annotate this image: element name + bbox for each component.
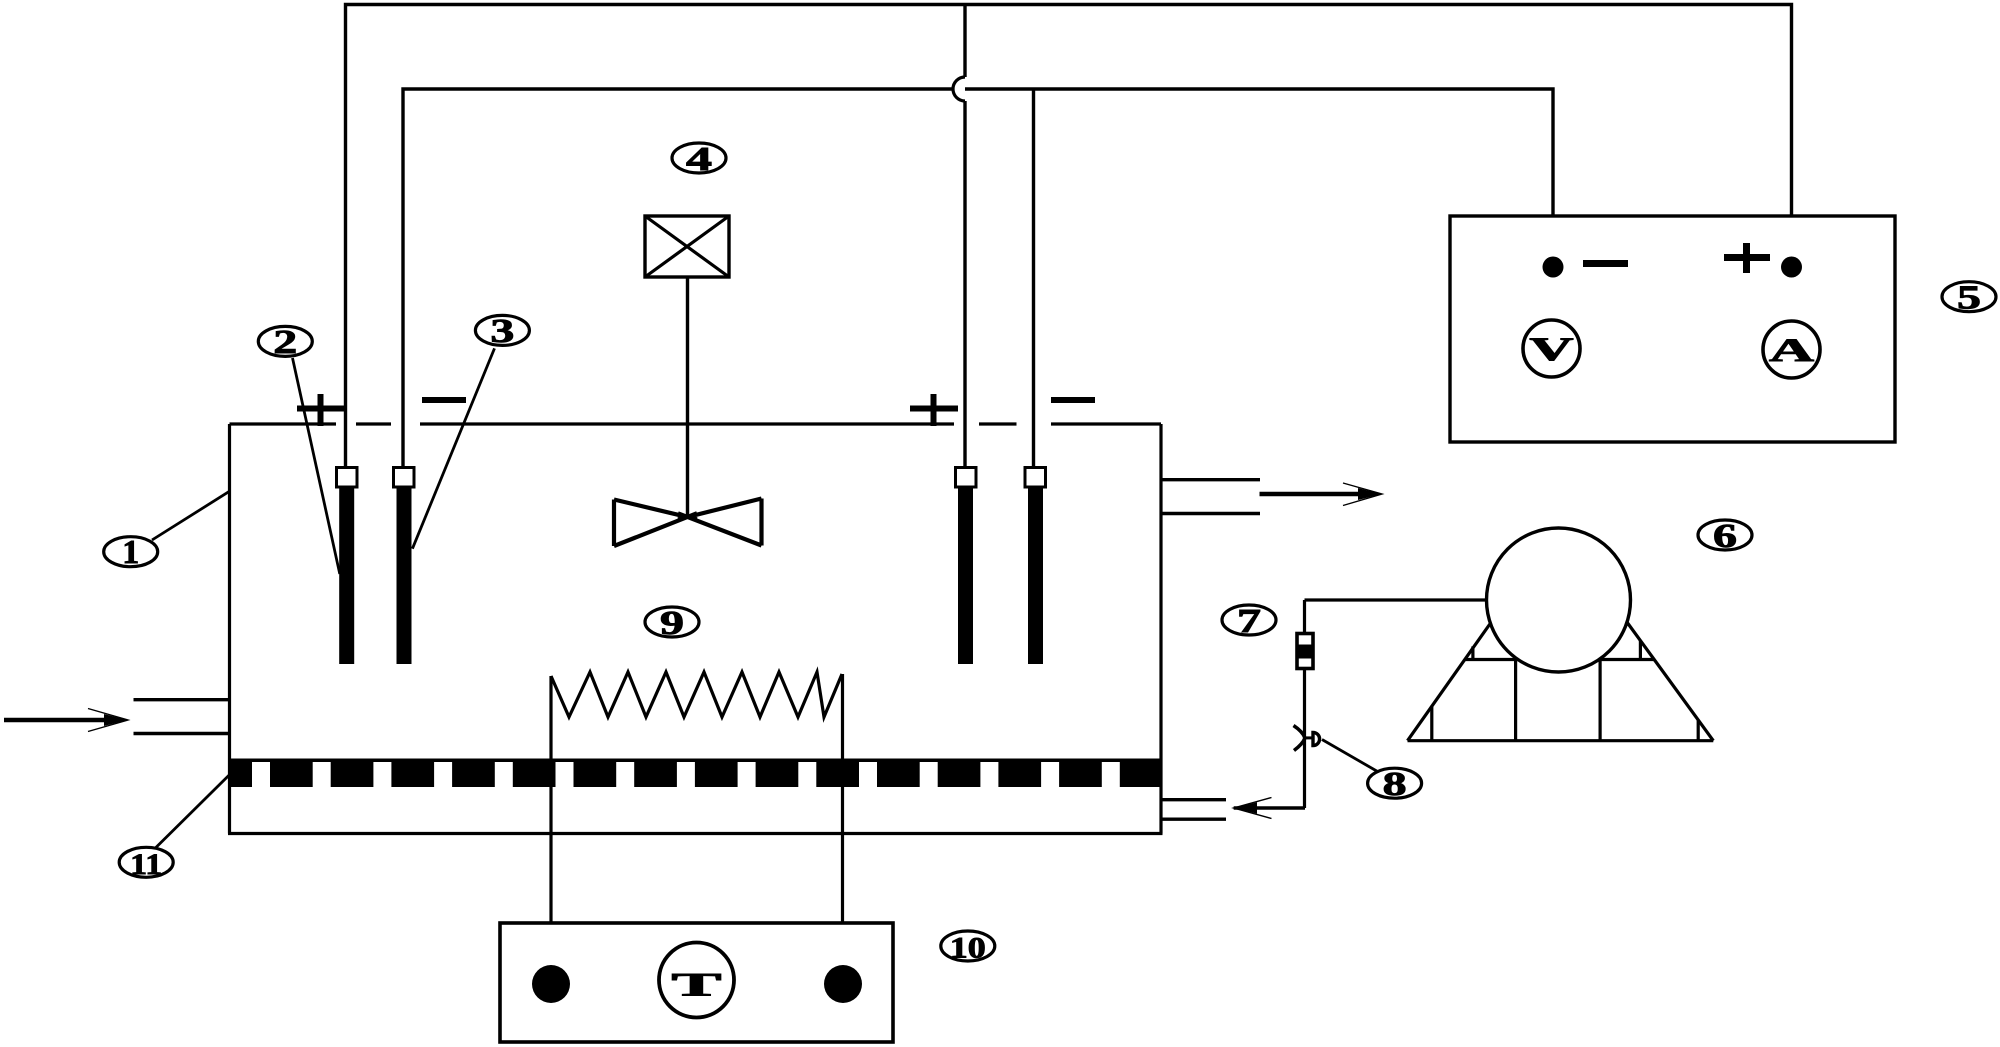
label 8	[1368, 768, 1422, 798]
flow restrictor 7	[1297, 634, 1313, 669]
wire hop crossing at cathode bus	[953, 77, 965, 101]
electrode right anode connector box	[956, 468, 977, 488]
electrode right cathode connector box	[1025, 468, 1046, 488]
valve 8	[1294, 726, 1305, 751]
pump 6 base left slant	[1408, 621, 1493, 741]
label 6	[1698, 520, 1752, 550]
outlet pipe lower right	[1161, 800, 1226, 820]
svg-text:11: 11	[130, 848, 162, 881]
electrode 3 connector box	[394, 468, 415, 488]
svg-text:1: 1	[122, 534, 139, 571]
svg-text:6: 6	[1713, 518, 1737, 555]
heater right lead	[841, 674, 844, 966]
svg-text:T: T	[672, 968, 722, 1004]
svg-text:A: A	[1769, 333, 1814, 369]
outlet pipe upper right	[1161, 480, 1260, 514]
stirrer impeller	[614, 499, 762, 547]
voltmeter V	[1523, 320, 1580, 377]
svg-text:2: 2	[273, 324, 297, 361]
wire anode bus top	[346, 5, 1792, 469]
stirrer shaft	[686, 277, 689, 517]
electrode 2 connector box	[337, 468, 358, 488]
electrode 3 cathode bar	[397, 487, 412, 664]
plus sign left pair	[297, 394, 345, 426]
pipe pump suction	[1305, 598, 1488, 601]
power supply box 5	[1450, 216, 1895, 442]
label 3 leader	[412, 348, 494, 548]
label 5	[1942, 282, 1996, 312]
wire right anode drop	[963, 5, 966, 469]
label 7	[1222, 605, 1276, 635]
svg-text:5: 5	[1957, 280, 1981, 317]
label 10	[941, 931, 995, 961]
return arrow	[1234, 806, 1305, 809]
svg-text:9: 9	[660, 605, 684, 642]
label 11	[119, 847, 173, 877]
wire cathode bus	[403, 89, 1553, 468]
label 9	[645, 607, 699, 637]
controller right terminal	[824, 965, 862, 1003]
temperature controller box 10	[500, 923, 893, 1042]
svg-text:3: 3	[490, 313, 514, 350]
svg-text:V: V	[1530, 332, 1574, 368]
pump base grid	[1465, 658, 1654, 661]
thermometer T circle	[659, 943, 734, 1018]
label 1	[104, 537, 158, 567]
plus sign right pair	[910, 394, 958, 426]
minus sign right pair	[1051, 397, 1095, 403]
electrode right cathode bar	[1028, 487, 1043, 664]
svg-text:8: 8	[1383, 766, 1407, 803]
pump 6 circle	[1487, 528, 1631, 672]
svg-text:10: 10	[950, 932, 986, 965]
label 11 leader	[154, 775, 230, 850]
terminal plus dot	[1781, 257, 1802, 278]
controller left terminal	[532, 965, 570, 1003]
inlet arrow	[4, 718, 112, 723]
tank 1 walls	[228, 424, 1163, 834]
heater 9 zigzag	[551, 672, 842, 717]
label 2 leader	[293, 358, 340, 574]
pump base bottom	[1408, 739, 1714, 742]
terminal minus dot	[1543, 257, 1564, 278]
minus sign box5	[1583, 260, 1628, 267]
electrode 2 anode bar	[339, 487, 354, 664]
tank 1 top rim segments	[230, 422, 1162, 425]
pipe valve riser	[1303, 600, 1306, 808]
perforated plate 11 band	[231, 759, 1160, 788]
electrode right anode bar	[958, 487, 973, 664]
heater left lead	[549, 676, 552, 966]
inlet pipe left	[134, 700, 230, 734]
pump 6 base right slant	[1627, 622, 1714, 741]
svg-text:4: 4	[686, 141, 712, 178]
outlet arrow upper	[1260, 492, 1371, 497]
label 8 leader	[1322, 740, 1381, 774]
label 3	[475, 315, 529, 345]
label 4	[672, 143, 726, 173]
plus sign box5	[1724, 243, 1770, 273]
wire right cathode drop	[1032, 89, 1035, 468]
stirrer motor box 4	[645, 216, 729, 277]
ammeter A	[1763, 321, 1820, 378]
minus sign left pair	[422, 397, 466, 403]
label 1 leader	[152, 492, 229, 540]
label 2	[258, 326, 312, 356]
svg-text:7: 7	[1237, 603, 1261, 640]
